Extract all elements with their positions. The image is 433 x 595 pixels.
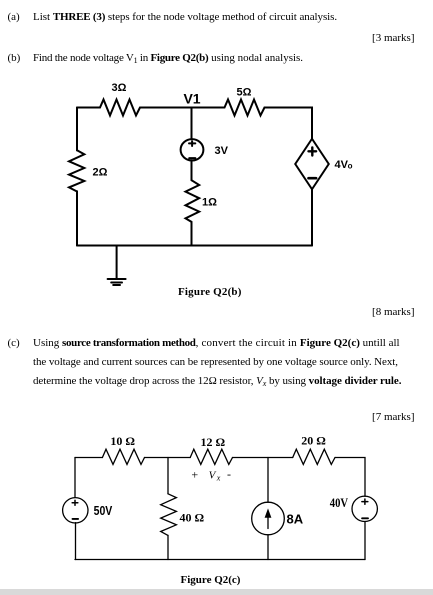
line (a) — [8, 11, 20, 24]
svg-text:+: + — [191, 468, 198, 482]
dependent source 4Vo — [295, 139, 352, 190]
wire left top — [74, 458, 76, 498]
paragraph (c) — [8, 337, 20, 350]
wire middle top — [191, 108, 193, 140]
wire top b — [233, 457, 293, 459]
resistor R 20ohm — [293, 434, 335, 465]
svg-text:40V: 40V — [330, 495, 349, 510]
svg-text:10 Ω: 10 Ω — [110, 434, 135, 448]
wire right-bottom — [311, 189, 313, 245]
ground — [108, 246, 126, 286]
wire bottom rail — [75, 559, 365, 561]
wire branch 40ohm top — [167, 458, 169, 494]
wire left top — [76, 108, 78, 151]
[3 marks] — [372, 32, 414, 45]
wire top a — [145, 457, 191, 459]
wire right-bottom — [364, 522, 366, 560]
label +Vx- — [191, 467, 231, 483]
voltage source 40V — [330, 495, 378, 522]
wire bottom rail — [77, 245, 312, 247]
svg-text:x: x — [216, 473, 221, 482]
line (b) — [8, 52, 21, 65]
current source 8A — [252, 502, 304, 535]
wire middle — [191, 160, 193, 180]
svg-text:40 Ω: 40 Ω — [180, 511, 205, 525]
wire top-left — [75, 457, 102, 459]
voltage source 3V — [181, 139, 229, 160]
resistor R 40ohm — [161, 494, 205, 536]
svg-text:-: - — [227, 467, 231, 481]
resistor R 3ohm — [100, 82, 140, 116]
svg-text:8A: 8A — [287, 512, 304, 527]
caption Figure Q2(b) — [178, 286, 242, 299]
[8 marks] — [372, 306, 414, 319]
wire top-left — [77, 107, 100, 109]
voltage source 50V — [63, 498, 113, 523]
wire top-middle — [140, 107, 225, 109]
resistor R 1ohm — [186, 180, 218, 222]
caption Figure Q2(c) — [181, 574, 241, 587]
[7 marks] — [372, 411, 414, 424]
wire branch 8A top — [267, 458, 269, 503]
bottom gray bar — [0, 589, 433, 595]
svg-text:20 Ω: 20 Ω — [301, 434, 326, 448]
wire branch 8A bottom — [267, 535, 269, 560]
wire left bottom — [76, 191, 78, 245]
svg-text:V: V — [209, 469, 217, 481]
wire branch 40ohm bottom — [167, 535, 169, 559]
svg-text:50V: 50V — [94, 503, 113, 518]
resistor R 5ohm — [225, 87, 265, 116]
resistor R 2ohm — [69, 150, 108, 191]
wire left bottom — [75, 523, 77, 560]
resistor R 10ohm — [102, 434, 144, 464]
wire top-right — [335, 458, 365, 497]
wire top-right — [265, 108, 313, 139]
wire middle bottom — [191, 222, 193, 246]
svg-text:12 Ω: 12 Ω — [200, 435, 225, 449]
resistor R 12ohm — [190, 435, 232, 464]
